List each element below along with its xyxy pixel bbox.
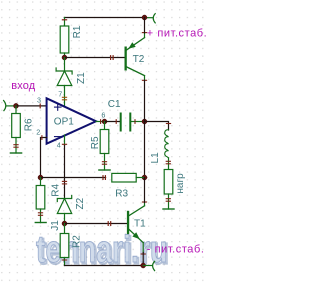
resistor R6 xyxy=(12,106,35,153)
transistor T2 xyxy=(125,33,147,81)
node J1 xyxy=(62,221,67,226)
resistor R5 xyxy=(90,122,109,171)
svg-text:C1: C1 xyxy=(108,99,121,110)
resistor R4 xyxy=(36,178,61,223)
svg-text:R5: R5 xyxy=(90,136,101,149)
svg-text:- пит.стаб.: - пит.стаб. xyxy=(147,244,205,256)
pin 6 lead xyxy=(96,121,105,123)
svg-text:R2: R2 xyxy=(71,235,82,248)
terminal - supply (bottom) xyxy=(143,261,154,270)
wire T1 collector up xyxy=(144,178,146,203)
node C1 right xyxy=(142,119,147,124)
svg-text:Z1: Z1 xyxy=(76,72,87,84)
node bottom rail xyxy=(141,263,146,268)
capacitor C1 xyxy=(105,99,145,131)
transistor T1 xyxy=(127,202,147,254)
resistor R2 xyxy=(60,224,82,266)
wire T2 emitter to rail xyxy=(144,18,146,34)
svg-text:6: 6 xyxy=(101,110,105,119)
wire pin4 to Z2 xyxy=(64,146,66,199)
wire output node down xyxy=(144,122,146,178)
node R1/Z1/T2-base xyxy=(62,55,67,60)
svg-text:J1: J1 xyxy=(50,220,61,231)
svg-text:нагр: нагр xyxy=(175,173,186,194)
svg-text:3: 3 xyxy=(37,95,41,104)
wire node A to R3 xyxy=(41,177,106,179)
watermark tehnari.ru xyxy=(36,229,169,272)
ground R4 xyxy=(35,222,46,224)
wire T1 emitter to rail xyxy=(142,253,144,266)
resistor R3 xyxy=(112,173,145,199)
svg-text:2: 2 xyxy=(36,128,40,137)
svg-text:R4: R4 xyxy=(51,183,62,196)
svg-text:T1: T1 xyxy=(134,218,146,229)
wire L1 branch xyxy=(145,122,169,131)
zener Z1 xyxy=(56,58,72,107)
svg-text:7: 7 xyxy=(58,89,62,98)
node R3 right xyxy=(142,175,147,180)
ground нагр xyxy=(163,208,174,210)
svg-text:+ пит.стаб.: + пит.стаб. xyxy=(147,28,207,40)
svg-text:T2: T2 xyxy=(133,54,145,65)
node input xyxy=(14,103,19,108)
terminal input xyxy=(4,101,16,111)
wire input to pin3 xyxy=(16,105,47,107)
svg-text:OP1: OP1 xyxy=(54,116,74,127)
svg-text:R3: R3 xyxy=(115,188,128,199)
svg-text:R6: R6 xyxy=(24,118,35,131)
svg-text:4: 4 xyxy=(57,141,61,150)
wire base T2 xyxy=(65,57,125,59)
node top-right junction xyxy=(142,15,147,20)
resistor нагр xyxy=(164,170,186,210)
wire bottom rail xyxy=(65,265,144,267)
svg-text:вход: вход xyxy=(11,80,35,92)
op-amp OP1 xyxy=(36,89,105,149)
pin 4 stub xyxy=(62,135,66,146)
terminal + supply (top right) xyxy=(145,14,156,23)
wire top rail xyxy=(65,17,145,19)
ground R6 xyxy=(10,152,21,154)
zener Z2 xyxy=(62,181,66,184)
inductor L1 xyxy=(150,130,170,170)
resistor R1 xyxy=(60,18,83,58)
node output xyxy=(102,119,107,124)
svg-text:L1: L1 xyxy=(150,152,161,164)
wire J1 to T1 base xyxy=(65,223,127,225)
node A feedback xyxy=(38,175,43,180)
svg-text:Z2: Z2 xyxy=(75,197,86,209)
wire pin2 feedback xyxy=(41,138,47,178)
wire T2 collector down xyxy=(144,80,146,121)
svg-text:R1: R1 xyxy=(72,25,83,38)
ground R5 xyxy=(99,169,110,171)
